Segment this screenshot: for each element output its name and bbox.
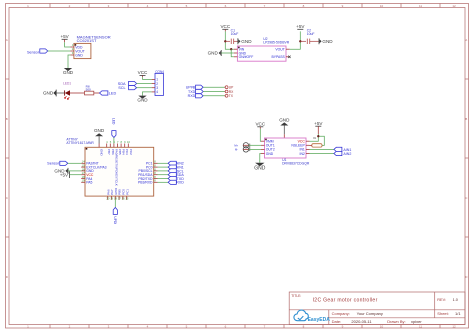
svg-text:GND: GND (266, 152, 274, 156)
svg-text:RXD: RXD (176, 181, 184, 185)
capacitor C1 10uF (231, 28, 239, 44)
power flag +5V (reg out) (296, 24, 305, 29)
LED D1 LED1 (63, 81, 71, 99)
ground (MCU left) (54, 168, 68, 174)
svg-text:10: 10 (380, 325, 384, 329)
MCU bottom pins (106, 196, 128, 201)
svg-text:GND: GND (100, 149, 104, 157)
svg-text:2020-05-11: 2020-05-11 (351, 319, 372, 324)
svg-text:15: 15 (125, 197, 128, 201)
svg-text:10: 10 (380, 4, 384, 8)
ground (LED cathode) (43, 90, 56, 97)
svg-text:GND: GND (208, 51, 219, 56)
svg-text:+5V: +5V (60, 34, 69, 39)
svg-text:xpixer: xpixer (411, 319, 422, 324)
wire SDA to pin2 (137, 83, 152, 85)
net port SDA (168, 173, 184, 178)
svg-text:IN2: IN2 (300, 152, 305, 156)
svg-text:PA0/RESET/UPDI/EXTCLK: PA0/RESET/UPDI/EXTCLK (114, 149, 118, 186)
wire VCC to pin1 (143, 77, 152, 79)
net port UP#B (186, 85, 203, 90)
svg-text:VOUT: VOUT (275, 48, 284, 52)
driver U1 DRV8837CDGQR (261, 138, 310, 165)
net port Sensor (MCU) (47, 161, 68, 166)
svg-text:DRV8837CDGQR: DRV8837CDGQR (282, 161, 310, 165)
pad UP (225, 86, 235, 90)
svg-text:PA5: PA5 (86, 181, 92, 185)
svg-text:4: 4 (156, 90, 158, 94)
junction (224, 40, 226, 42)
net port SCL (118, 86, 136, 90)
wire +5V branches (310, 134, 325, 145)
power flag +5V (MCU) (60, 171, 70, 178)
net port AIN1 (334, 147, 352, 152)
svg-text:Sheet:: Sheet: (437, 311, 449, 316)
svg-text:I2C Gear motor controller: I2C Gear motor controller (313, 298, 378, 304)
svg-text:GND: GND (94, 128, 105, 133)
wire UP#B to pad UP (203, 86, 224, 88)
svg-text:VCC: VCC (138, 70, 148, 75)
svg-text:M-: M- (235, 148, 238, 152)
wire gnd to top pad (283, 126, 285, 139)
svg-text:LP2985-50DBVR: LP2985-50DBVR (263, 41, 290, 45)
svg-text:GND: GND (241, 39, 252, 44)
svg-text:14: 14 (82, 160, 85, 164)
MCU U3 ATTINY1617-MNR (66, 137, 153, 196)
svg-text:TITLE:: TITLE: (291, 294, 301, 298)
ground (MCU top) (94, 128, 105, 136)
wire to C2 (300, 40, 306, 42)
net port LED (100, 91, 117, 96)
pad TX (225, 94, 234, 98)
ground (C2) (319, 38, 333, 44)
net port AIN2 (168, 161, 184, 166)
svg-text:REV:: REV: (437, 298, 446, 302)
svg-text:Your Company: Your Company (357, 311, 383, 316)
svg-text:12: 12 (452, 325, 456, 329)
net port RXD (168, 180, 184, 185)
ground (C1) (238, 38, 252, 44)
regulator U2 LP2985-50DBVR (234, 37, 291, 61)
svg-text:GND: GND (63, 70, 74, 75)
svg-text:PB5: PB5 (118, 149, 122, 155)
svg-text:PB4: PB4 (122, 149, 126, 155)
magnet sensor U4 CC6201ST (71, 35, 111, 59)
net port SDA (118, 81, 137, 85)
wire SCL to pin3 (137, 87, 152, 89)
wire gnd to top pin (98, 136, 100, 147)
svg-text:ATTINY1617-MNR: ATTINY1617-MNR (66, 141, 94, 145)
wire LED flag to pin (113, 138, 115, 144)
svg-text:PC2: PC2 (129, 149, 133, 155)
svg-text:Drawn By:: Drawn By: (387, 319, 405, 324)
MCU top pins (106, 140, 130, 147)
power flag VCC (driver) (255, 122, 265, 129)
svg-text:AIN2: AIN2 (343, 152, 351, 156)
wire RXD (158, 181, 169, 183)
svg-text:B: B (465, 117, 467, 121)
svg-text:10uF: 10uF (231, 32, 239, 36)
resistor R8 500 (85, 84, 94, 95)
svg-text:PB6: PB6 (111, 149, 115, 155)
wire R8 to LED port (94, 92, 100, 94)
junction (230, 48, 232, 50)
motor connector M1 (234, 143, 249, 152)
svg-text:A: A (465, 38, 467, 42)
net port Sensor (27, 49, 48, 55)
svg-text:UPDI: UPDI (113, 216, 117, 224)
svg-text:GND: GND (137, 98, 148, 103)
wire sensor to PA2 (68, 162, 81, 164)
ground (reg left) (208, 50, 222, 56)
svg-text:16: 16 (82, 167, 85, 171)
svg-text:+5V: +5V (314, 121, 323, 126)
svg-text:+5V: +5V (296, 24, 305, 29)
svg-text:1/1: 1/1 (455, 311, 461, 316)
wire Sensor to VOUT (48, 50, 71, 52)
net port UPDI (vertical) (113, 208, 118, 225)
svg-text:EasyEDA: EasyEDA (308, 317, 331, 323)
wire C1 to gnd (234, 40, 238, 42)
wire +5V to VDD (65, 42, 71, 47)
title block (289, 292, 465, 325)
svg-text:+5V: +5V (60, 172, 69, 177)
power flag +5V (driver) (314, 121, 323, 134)
wire pin4 to ground (143, 92, 152, 96)
title text (291, 294, 461, 324)
svg-text:LED: LED (111, 118, 115, 125)
wire GND pin down (68, 55, 71, 68)
wire OUT2 (249, 148, 261, 150)
wire TXD to pad RX (203, 91, 224, 93)
pad RX (225, 90, 235, 94)
svg-text:18: 18 (82, 175, 85, 179)
svg-text:1.0: 1.0 (453, 298, 458, 302)
wire gnd to GND pin (68, 170, 81, 172)
junction (317, 135, 319, 137)
power flag +5V (sensor) (60, 34, 69, 42)
ground (driver top) (279, 117, 290, 125)
svg-text:Sensor: Sensor (47, 162, 60, 166)
wire SDA (158, 174, 169, 176)
wire LED to R8 (70, 92, 85, 94)
svg-text:A: A (6, 38, 8, 42)
power flag VCC (con) (138, 70, 148, 77)
svg-text:10: 10 (127, 140, 130, 144)
wire IN1 to AIN1 (310, 148, 334, 150)
wire VOUT to +5V (290, 31, 301, 49)
wire AIN2 (158, 162, 169, 164)
svg-text:LED1: LED1 (63, 81, 71, 85)
svg-text:11: 11 (419, 4, 422, 8)
svg-text:VCC: VCC (220, 24, 230, 29)
svg-text:PB7: PB7 (107, 149, 111, 155)
wire VCC down to VIN (225, 31, 234, 49)
wire SCL (158, 170, 169, 172)
ground (driver bottom) (254, 163, 266, 172)
wire IN2 to AIN2 (310, 153, 334, 155)
wire ON/OFF loop (231, 49, 234, 57)
resistor R1 (310, 137, 323, 147)
svg-text:VCC: VCC (255, 122, 265, 127)
svg-text:PB3/RXD: PB3/RXD (138, 181, 153, 185)
svg-text:Sensor: Sensor (27, 50, 40, 54)
svg-text:PC1: PC1 (125, 189, 129, 195)
wire gnd to GND pin (221, 52, 234, 54)
EasyEDA logo (294, 310, 330, 323)
wire RXD to pad TX (203, 95, 224, 97)
wire to C1 (225, 40, 230, 42)
wire GND pin down (260, 154, 261, 163)
svg-text:Date:: Date: (332, 319, 342, 324)
svg-text:GND: GND (43, 91, 54, 96)
svg-text:GND: GND (75, 53, 83, 57)
net port TXD (188, 89, 203, 94)
ground (con pin4) (137, 96, 148, 103)
svg-text:Company:: Company: (332, 311, 350, 316)
ground (below sensor) (63, 68, 74, 75)
svg-text:GND: GND (322, 39, 333, 44)
net port AIN1 (168, 165, 184, 170)
wire TXD (158, 178, 169, 180)
net port RXD (188, 94, 204, 99)
svg-text:BYPASS: BYPASS (271, 55, 285, 59)
MCU bottom pin names (vertical) (106, 188, 129, 195)
wire VCC to VMM (259, 129, 262, 141)
wire UPDI pin down (114, 200, 116, 208)
svg-text:10uF: 10uF (307, 32, 315, 36)
svg-text:CC6201ST: CC6201ST (77, 38, 97, 43)
capacitor C2 10uF (307, 28, 315, 44)
svg-text:RXD: RXD (188, 94, 196, 98)
svg-text:LED: LED (109, 91, 117, 95)
svg-text:M+: M+ (234, 143, 238, 147)
svg-text:17: 17 (82, 171, 85, 175)
MCU left pins (81, 160, 106, 185)
power flag VCC (reg) (220, 24, 230, 31)
svg-text:B: B (6, 117, 8, 121)
svg-text:15: 15 (82, 164, 85, 168)
svg-text:PC3: PC3 (125, 149, 129, 155)
wire +5v to VCC pin (69, 174, 81, 176)
connector J1 CON4 (152, 70, 165, 96)
junction (299, 40, 301, 42)
MCU right pins (138, 160, 158, 185)
svg-text:500: 500 (86, 87, 91, 91)
svg-text:ON/#OFF: ON/#OFF (239, 55, 254, 59)
svg-text:SCL: SCL (118, 86, 125, 90)
svg-text:12: 12 (452, 4, 456, 8)
wire OUT1 (249, 144, 261, 146)
net port LED (vertical) (111, 118, 116, 138)
wire C2 to gnd (310, 40, 319, 42)
svg-text:GND: GND (279, 117, 290, 122)
wire AIN1 (158, 166, 169, 168)
svg-text:11: 11 (419, 325, 422, 329)
wire GND to LED (56, 92, 64, 94)
net port TXD (168, 176, 184, 181)
MCU top pin names (vertical) (100, 149, 133, 186)
net port SCL (168, 169, 184, 174)
svg-text:GND: GND (254, 166, 266, 172)
svg-text:19: 19 (82, 179, 85, 183)
net port AIN2 (334, 151, 352, 156)
